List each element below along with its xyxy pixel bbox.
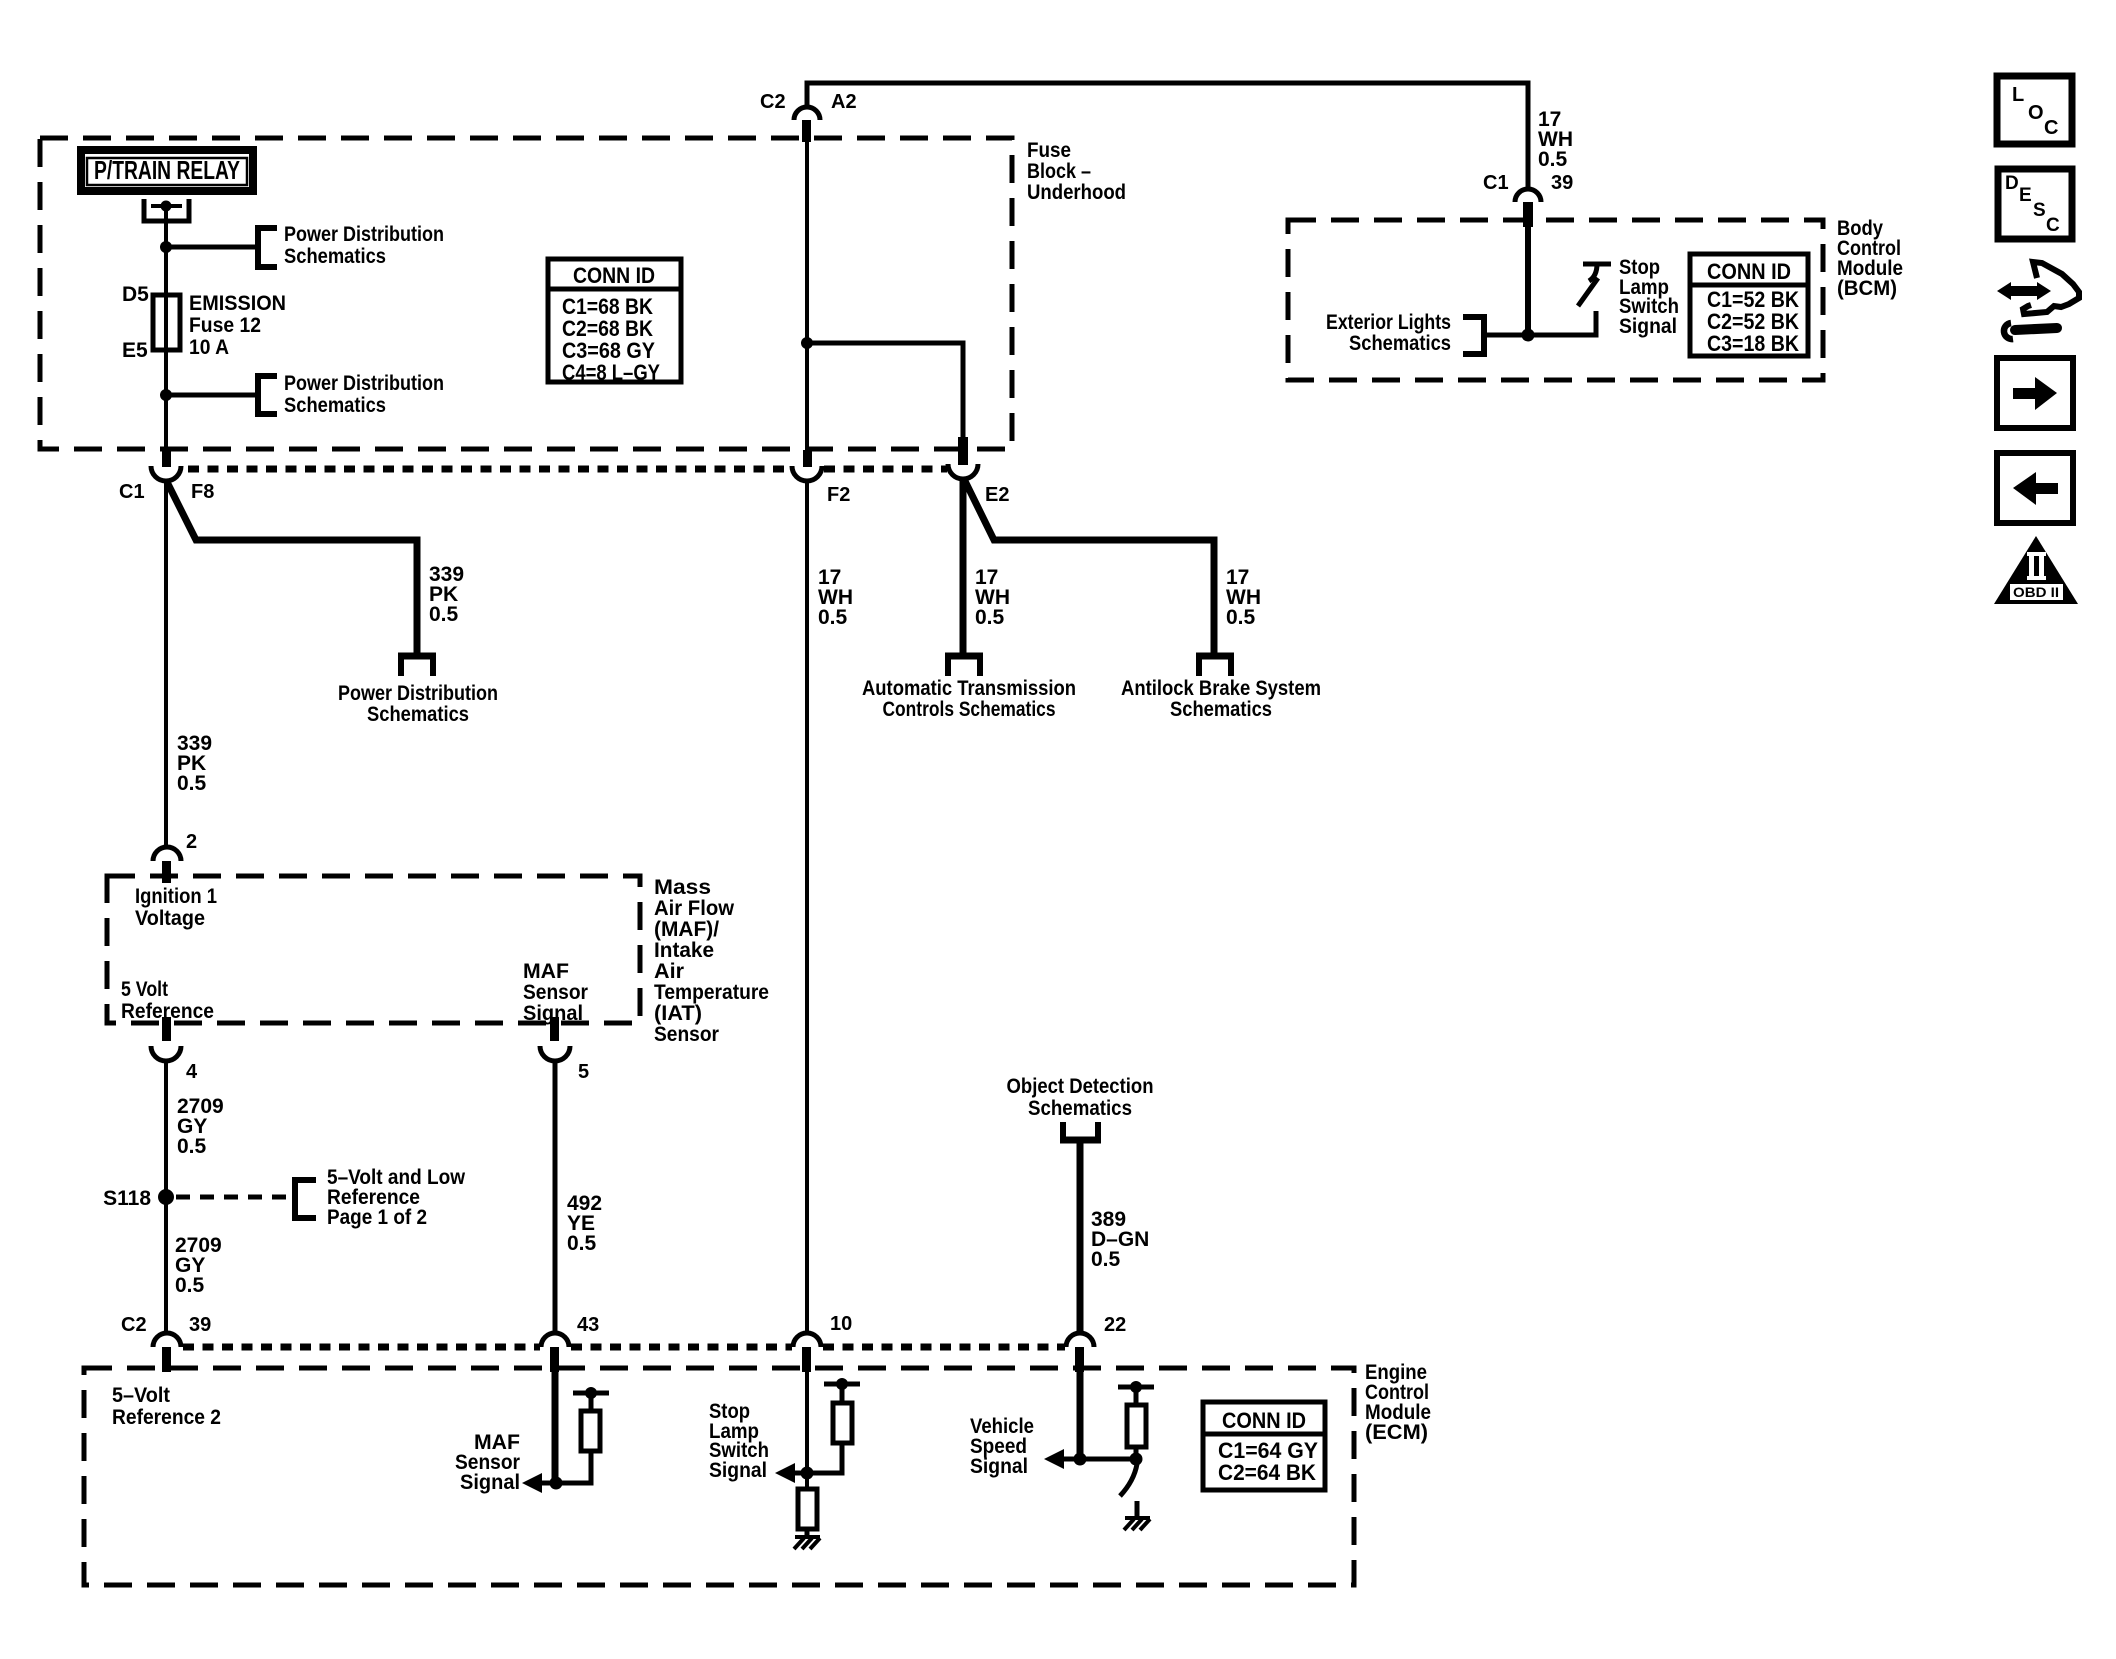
node: vehicle speed junction 1 (1074, 1453, 1087, 1466)
svg-text:10 A: 10 A (189, 336, 229, 359)
svg-text:Reference 2: Reference 2 (112, 1406, 221, 1429)
svg-text:Automatic Transmission: Automatic Transmission (862, 677, 1076, 700)
label: MAF Sensor Signal (sensor) (523, 960, 588, 1025)
relay terminal bar (151, 204, 182, 208)
svg-text:D: D (2005, 173, 2019, 194)
svg-text:Signal: Signal (970, 1455, 1028, 1478)
label: 5-Volt and Low Reference Page 1 of 2 (327, 1166, 466, 1229)
svg-text:Air Flow: Air Flow (654, 897, 735, 920)
svg-text:22: 22 (1104, 1314, 1126, 1336)
label: 492 YE 0.5 (567, 1192, 602, 1255)
CONN ID table (BCM) (1690, 254, 1808, 356)
svg-text:Power Distribution: Power Distribution (284, 372, 444, 395)
switch: vehicle speed fixed contact (1135, 1501, 1140, 1517)
svg-text:Power Distribution: Power Distribution (338, 682, 498, 705)
connector 2 pin (162, 861, 171, 883)
label: EMISSION Fuse 12 10 A (189, 292, 286, 359)
label: Antilock Brake System Schematics (1121, 677, 1321, 721)
svg-text:Schematics: Schematics (1170, 698, 1272, 721)
off-page terminal: power distribution (398, 656, 436, 676)
wire: junction to bracket 1 (166, 245, 257, 250)
svg-text:Intake: Intake (654, 939, 714, 962)
wire: resistor to signal line (vehicle speed) (1050, 1447, 1136, 1459)
svg-text:Signal: Signal (1619, 315, 1677, 338)
connector 22 arc (1066, 1333, 1094, 1347)
connector C2/A2 pin (802, 120, 811, 142)
label: 2709 GY 0.5 (upper) (177, 1095, 224, 1158)
connector C1/39 arc (1515, 189, 1541, 202)
svg-text:(ECM): (ECM) (1365, 1421, 1428, 1444)
label: Body Control Module (BCM) (1837, 217, 1903, 300)
dotted connector row 1 segment b (824, 466, 947, 473)
bracket: power distribution 2 (258, 376, 277, 414)
svg-text:E: E (2019, 185, 2032, 206)
connector F2 pin (803, 450, 812, 467)
svg-text:Power Distribution: Power Distribution (284, 223, 444, 246)
svg-text:A2: A2 (831, 91, 857, 113)
connector 5 arc (540, 1046, 570, 1061)
wire: junction to bracket 2 (166, 393, 257, 398)
connector 4 arc (151, 1046, 181, 1061)
label: Ignition 1 Voltage (135, 885, 217, 930)
switch: lever (1578, 278, 1598, 306)
svg-text:0.5: 0.5 (429, 603, 459, 626)
svg-text:4: 4 (186, 1061, 198, 1083)
svg-text:OBD II: OBD II (2013, 584, 2059, 600)
relay terminal dot (161, 201, 172, 212)
wire: resistor to signal line (stop lamp) (780, 1443, 842, 1473)
svg-text:CONN ID: CONN ID (1222, 1408, 1306, 1433)
switch: vehicle speed lever (1120, 1464, 1137, 1496)
off-page terminal: automatic transmission (945, 656, 983, 676)
CONN ID table (fuse block) (548, 259, 681, 385)
svg-text:S: S (2033, 200, 2046, 221)
label: Engine Control Module (ECM) (1365, 1361, 1431, 1444)
node: junction at fuse block (801, 337, 813, 349)
svg-text:Block –: Block – (1027, 160, 1091, 183)
svg-text:10: 10 (830, 1313, 852, 1335)
icon: service info (arrow, outline, wrench) (1997, 262, 2079, 339)
svg-text:0.5: 0.5 (177, 772, 207, 795)
wire: C1/F8 down to connector 2 (164, 481, 168, 848)
node: MAF signal junction (550, 1477, 563, 1490)
dotted connector row 2 segment c (823, 1344, 1065, 1351)
connector E2 pin (958, 437, 968, 465)
svg-text:5–Volt: 5–Volt (112, 1384, 170, 1407)
ECM internal supply bar (vehicle speed) (1118, 1385, 1154, 1390)
svg-text:Mass: Mass (654, 876, 711, 899)
label: Fuse Block - Underhood (1027, 139, 1126, 204)
node on supply bar (vehicle speed) (1130, 1381, 1142, 1393)
wire: pin 10 into ECM (805, 1370, 809, 1473)
arrow: stop lamp switch signal (775, 1463, 795, 1483)
svg-text:5 Volt: 5 Volt (121, 978, 168, 1001)
svg-text:CONN ID: CONN ID (1707, 259, 1791, 284)
wire: object detection down to ECM pin 22 (1077, 1140, 1084, 1334)
svg-text:C1: C1 (1483, 172, 1509, 194)
icon: OBD II triangle (1994, 536, 2078, 604)
BCM dashed box (1288, 220, 1823, 380)
svg-text:C2: C2 (760, 91, 786, 113)
wire: resistor R3 to ground (805, 1529, 810, 1537)
svg-text:Signal: Signal (460, 1471, 520, 1494)
wire: F8 branch to power distribution terminal (167, 482, 417, 653)
node: junction above fuse (160, 241, 172, 253)
label: 389 D-GN 0.5 (1091, 1208, 1149, 1271)
svg-text:C4=8 L–GY: C4=8 L–GY (562, 360, 660, 385)
connector 4 pin (162, 1017, 171, 1041)
svg-text:Fuse: Fuse (1027, 139, 1071, 162)
svg-text:E2: E2 (985, 484, 1009, 506)
connector 43 arc (541, 1333, 569, 1347)
svg-text:P/TRAIN RELAY: P/TRAIN RELAY (94, 155, 240, 185)
label: 17 WH 0.5 (E2) (975, 566, 1010, 629)
connector 43 pin (550, 1347, 559, 1372)
icon: LOC box (1997, 76, 2072, 144)
arrow: MAF sensor signal (522, 1473, 542, 1493)
wire: bar to resistor (stop lamp) (840, 1384, 845, 1403)
resistor R3 (stop lamp load) (798, 1489, 817, 1529)
label: Stop Lamp Switch Signal (BCM) (1619, 256, 1679, 338)
wire: A2 down to junction (805, 142, 809, 343)
bracket: power distribution 1 (258, 228, 277, 267)
wire: E2 down to transmission terminal (960, 479, 967, 653)
svg-text:Exterior Lights: Exterior Lights (1326, 311, 1451, 334)
connector C1/F8 arc (151, 466, 181, 481)
icon: right arrow box (1997, 358, 2073, 428)
MAF/IAT sensor dashed box (107, 876, 640, 1023)
svg-text:EMISSION: EMISSION (189, 292, 286, 315)
resistor R1 (MAF pull-up) (581, 1411, 600, 1451)
switch: stop lamp switch top bar (1583, 262, 1611, 267)
label: 17 WH 0.5 (F2) (818, 566, 853, 629)
wire: resistor to signal line (MAF) (528, 1451, 591, 1483)
svg-text:Schematics: Schematics (1349, 332, 1451, 355)
node: BCM junction (1522, 329, 1535, 342)
connector C2/39 pin (bottom) (162, 1347, 171, 1372)
svg-text:F8: F8 (191, 481, 214, 503)
svg-text:Schematics: Schematics (284, 394, 386, 417)
dotted connector row 2 segment b (571, 1344, 792, 1351)
connector E2 arc (948, 464, 978, 479)
label: 5-Volt Reference 2 (112, 1384, 221, 1429)
relay output terminal cup (144, 199, 189, 221)
bracket: exterior lights (1463, 317, 1484, 354)
node: junction below fuse (160, 389, 172, 401)
label: Exterior Lights Schematics (1326, 311, 1451, 355)
svg-text:Air: Air (654, 960, 684, 983)
wire: bar to resistor (vehicle speed) (1134, 1387, 1139, 1405)
svg-text:S118: S118 (103, 1187, 151, 1210)
label: Vehicle Speed Signal (970, 1415, 1034, 1478)
svg-text:C2: C2 (121, 1314, 147, 1336)
svg-text:C: C (2044, 117, 2058, 139)
svg-text:Antilock Brake System: Antilock Brake System (1121, 677, 1321, 700)
svg-text:(IAT): (IAT) (654, 1002, 702, 1025)
connector 22 pin (1075, 1347, 1084, 1372)
connector 10 pin (802, 1347, 811, 1372)
svg-text:Page 1 of 2: Page 1 of 2 (327, 1206, 427, 1229)
arrow: vehicle speed signal (1044, 1449, 1064, 1469)
svg-text:C3=18 BK: C3=18 BK (1707, 331, 1799, 356)
off-page terminal: antilock brake (1196, 656, 1234, 676)
svg-text:(BCM): (BCM) (1837, 277, 1897, 300)
wire: 39 down into BCM junction (1525, 215, 1531, 335)
svg-text:Underhood: Underhood (1027, 181, 1126, 204)
wire: fuse to connector C1/F8 (164, 395, 168, 452)
wire: pin 22 into ECM (1077, 1370, 1084, 1459)
svg-text:Schematics: Schematics (1028, 1097, 1132, 1120)
ground (stop lamp) (794, 1537, 820, 1549)
connector 5 pin (550, 1017, 559, 1041)
dotted connector row 2 segment a (183, 1344, 540, 1351)
svg-text:0.5: 0.5 (567, 1232, 597, 1255)
connector C2/A2 arc (794, 107, 820, 120)
CONN ID table (ECM) (1203, 1402, 1325, 1490)
wire: junction down to F2 (805, 343, 809, 452)
svg-text:MAF: MAF (523, 960, 569, 983)
svg-text:O: O (2028, 102, 2044, 124)
resistor R4 (vehicle speed pull-up) (1127, 1405, 1146, 1447)
wire: pin 4 down to C2/39 (164, 1060, 168, 1334)
label: MAF Sensor Signal (ECM) (455, 1431, 520, 1494)
label: 17 WH 0.5 (ABS) (1226, 566, 1261, 629)
label: Power Distribution Schematics 1 (284, 223, 444, 268)
svg-text:Ignition 1: Ignition 1 (135, 885, 217, 908)
svg-text:C1: C1 (119, 481, 145, 503)
relay K: P/TRAIN RELAY box (81, 150, 253, 191)
svg-text:2: 2 (186, 831, 197, 853)
svg-text:Fuse 12: Fuse 12 (189, 314, 261, 337)
label: Power Distribution Schematics (terminal) (338, 682, 498, 726)
wire: F2 down to ECM pin 10 (805, 480, 809, 1334)
bracket: 5-volt and low reference (295, 1180, 316, 1218)
wire: pin 5 down to ECM pin 43 (553, 1060, 558, 1334)
wire: relay terminal down through fuse to node E5 (164, 206, 168, 395)
wire: E2 branch to antilock terminal (965, 481, 1214, 653)
svg-text:Object Detection: Object Detection (1007, 1075, 1154, 1098)
label: 17 WH 0.5 (BCM feed) (1538, 108, 1573, 171)
connector 10 arc (793, 1333, 821, 1347)
svg-text:0.5: 0.5 (175, 1274, 205, 1297)
dashed reference wire (176, 1195, 291, 1200)
svg-text:Sensor: Sensor (654, 1023, 719, 1046)
svg-text:39: 39 (1551, 172, 1573, 194)
ground (vehicle speed) (1124, 1518, 1150, 1530)
label: 2709 GY 0.5 (lower) (175, 1234, 222, 1297)
svg-text:0.5: 0.5 (177, 1135, 207, 1158)
svg-text:0.5: 0.5 (975, 606, 1005, 629)
label: Power Distribution Schematics 2 (284, 372, 444, 417)
connector C2/39 arc (bottom) (153, 1333, 181, 1347)
connector C1/F8 pin (162, 450, 171, 467)
ECM dashed box (84, 1368, 1354, 1585)
svg-text:Voltage: Voltage (135, 907, 205, 930)
wire: bracket to junction to switch contact (1484, 311, 1596, 335)
node on supply bar (MAF) (585, 1387, 597, 1399)
wire: bar to resistor (MAF) (589, 1393, 594, 1411)
svg-text:0.5: 0.5 (1226, 606, 1256, 629)
fuse block underhood dashed box (40, 138, 1012, 449)
label: 5 Volt Reference (121, 978, 214, 1023)
svg-text:E5: E5 (122, 339, 148, 362)
label: 339 PK 0.5 (branch) (429, 563, 464, 626)
switch: top contact stub (1589, 264, 1597, 281)
svg-text:Controls Schematics: Controls Schematics (883, 698, 1056, 721)
label: Automatic Transmission Controls Schematics (862, 677, 1076, 721)
svg-text:5: 5 (578, 1061, 589, 1083)
svg-text:Schematics: Schematics (367, 703, 469, 726)
svg-text:C2=64 BK: C2=64 BK (1218, 1460, 1316, 1485)
svg-text:39: 39 (189, 1314, 211, 1336)
svg-text:F2: F2 (827, 484, 850, 506)
svg-text:C: C (2046, 215, 2060, 236)
label: Mass Air Flow (MAF)/ Intake Air Temperature (IAT) Sensor (654, 876, 769, 1046)
svg-text:Temperature: Temperature (654, 981, 769, 1004)
svg-text:Signal: Signal (709, 1459, 767, 1482)
connector C1/39 pin (1523, 202, 1533, 227)
wire: pin 43 into ECM (552, 1370, 559, 1483)
svg-text:(MAF)/: (MAF)/ (654, 918, 719, 941)
off-page terminal: object detection (legs up) (1060, 1122, 1101, 1140)
node on supply bar (stop lamp) (836, 1378, 848, 1390)
label: Stop Lamp Switch Signal (ECM) (709, 1400, 769, 1482)
svg-text:D5: D5 (122, 283, 149, 306)
connector 2 arc (153, 847, 181, 861)
wire: junction down to resistor R3 (805, 1473, 809, 1489)
label: 339 PK 0.5 (main) (177, 732, 212, 795)
svg-text:CONN ID: CONN ID (573, 263, 655, 288)
svg-text:L: L (2012, 84, 2024, 106)
ECM internal supply bar (stop lamp) (824, 1382, 860, 1387)
label: Object Detection Schematics (1007, 1075, 1154, 1120)
node: splice S118 (158, 1189, 174, 1205)
svg-text:43: 43 (577, 1314, 599, 1336)
svg-text:0.5: 0.5 (1091, 1248, 1121, 1271)
svg-text:0.5: 0.5 (1538, 148, 1568, 171)
icon: left arrow box (1997, 453, 2073, 523)
wire: A2 feed top run (807, 83, 1528, 190)
resistor R2 (stop lamp pull-up) (833, 1403, 852, 1443)
icon: DESC box (1998, 169, 2072, 239)
ECM internal supply bar (MAF) (573, 1391, 609, 1396)
svg-text:0.5: 0.5 (818, 606, 848, 629)
node: vehicle speed junction 2 (1130, 1453, 1143, 1466)
svg-text:Schematics: Schematics (284, 245, 386, 268)
node: stop lamp junction (801, 1467, 814, 1480)
fuse F12: EMISSION Fuse 12 10A (153, 295, 180, 350)
connector F2 arc (792, 466, 822, 481)
wire: junction to E2 (807, 343, 963, 437)
svg-text:Sensor: Sensor (523, 981, 588, 1004)
dotted connector row 1 segment a (188, 466, 791, 473)
